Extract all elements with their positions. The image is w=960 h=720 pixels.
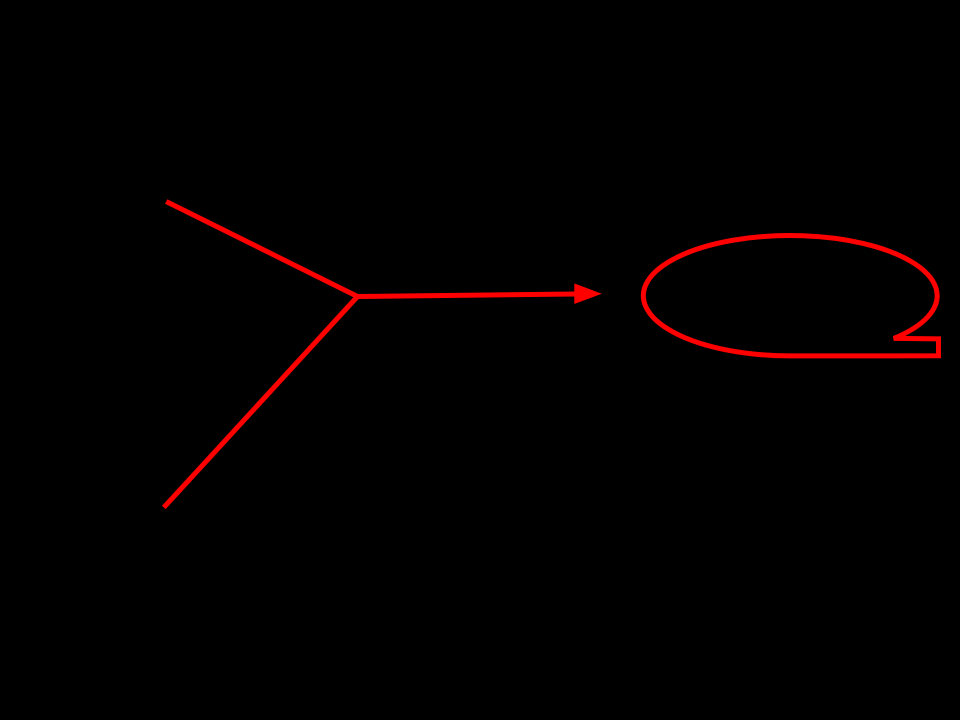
incoming line upper-left: [166, 202, 357, 297]
arrowhead: [574, 283, 602, 304]
blob loop with notched tail: [643, 236, 938, 356]
incoming line lower-left: [164, 297, 358, 508]
arrow shaft: [358, 294, 577, 297]
